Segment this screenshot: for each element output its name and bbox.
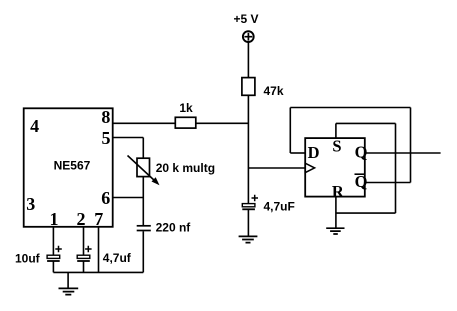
ground G3 symbol [326, 228, 344, 234]
resistor R1 47k body [242, 78, 255, 96]
svg-text:7: 7 [94, 209, 103, 229]
ground bus wire [53, 271, 143, 273]
wire C2 to ground bus [83, 261, 85, 272]
wire U1 pin2 down to C2 [83, 227, 85, 255]
ground G1 stub [67, 272, 69, 288]
feedback wire Qbar to D : left vertical [289, 108, 291, 154]
C2 plus sign [85, 246, 92, 252]
wire C1 to ground bus [52, 261, 54, 272]
U2 Qbar overline [355, 173, 365, 175]
ground G1 symbol [59, 288, 79, 294]
svg-text:NE567: NE567 [54, 159, 91, 173]
feedback wire Qbar to D : top horizontal [290, 107, 410, 109]
R3 adjustment arrow [128, 156, 156, 182]
svg-text:4: 4 [30, 116, 39, 136]
U2 clock input triangle [305, 163, 314, 172]
wire R pin down to ground G3 [335, 197, 337, 229]
wire Q output [365, 152, 441, 154]
S loop right vertical [395, 123, 397, 213]
svg-text:47k: 47k [264, 84, 284, 98]
svg-text:20 k multg: 20 k multg [156, 161, 215, 175]
wire Qbar output to feedback [365, 182, 411, 184]
capacitor C4 4,7uF polarized [242, 204, 255, 207]
wire U1 pin7 down to ground bus [98, 227, 100, 272]
wire C3 bottom to ground bus [142, 231, 144, 272]
wire node A to flip-flop clock input [248, 167, 305, 169]
svg-text:1: 1 [50, 209, 59, 229]
svg-text:1k: 1k [179, 101, 193, 115]
svg-text:S: S [332, 137, 341, 156]
svg-text:220 nf: 220 nf [156, 221, 192, 235]
+5V terminal plus [244, 33, 252, 41]
wire R3 bottom through pin6 node to C3 220nf [142, 177, 144, 225]
wire R2 to node A [196, 122, 249, 124]
capacitor C3 220nf plates [137, 225, 151, 227]
C1 plus sign [55, 246, 62, 252]
wire U1 pin5 horizontal [113, 137, 144, 139]
flip-flop U2 body [305, 138, 365, 197]
feedback wire Qbar to D : right vertical [410, 108, 412, 183]
svg-text:+5 V: +5 V [233, 12, 258, 26]
svg-text:3: 3 [26, 194, 35, 214]
svg-text:8: 8 [101, 107, 110, 127]
wire U1 pin1 down to C1 [52, 227, 54, 255]
svg-text:D: D [308, 143, 320, 162]
wire U1 pin8 to R2 1k [113, 122, 176, 124]
svg-text:4,7uF: 4,7uF [264, 200, 295, 214]
wire R1 bottom to node A and on to capacitor C4 [247, 95, 249, 203]
wire U1 pin6 horizontal [113, 197, 144, 199]
svg-text:10uf: 10uf [15, 252, 41, 266]
wire C4 to ground G2 [247, 209, 249, 236]
wire +5V to R1 47k [247, 42, 249, 78]
S loop top horizontal [336, 122, 396, 124]
resistor R2 1k body [175, 117, 196, 128]
svg-text:5: 5 [102, 128, 111, 148]
wire pin5 down to potentiometer R3 [142, 138, 144, 159]
svg-text:4,7uf: 4,7uf [103, 251, 132, 265]
svg-text:6: 6 [101, 188, 110, 208]
wire D input from feedback [290, 152, 305, 154]
capacitor C2 4,7uf polarized [77, 255, 90, 258]
+5V terminal circle [243, 31, 254, 42]
ground G2 symbol [239, 236, 258, 242]
IC U1 NE567 body [24, 108, 113, 227]
svg-text:R: R [332, 182, 345, 201]
capacitor C1 10uf polarized [47, 255, 60, 258]
potentiometer R3 body 20k [137, 158, 150, 176]
C4 plus sign [252, 195, 259, 201]
svg-text:2: 2 [77, 209, 86, 229]
svg-text:Q: Q [355, 143, 368, 162]
wire S pin up to S loop [335, 123, 337, 138]
S loop bottom horizontal to R node [336, 212, 396, 214]
